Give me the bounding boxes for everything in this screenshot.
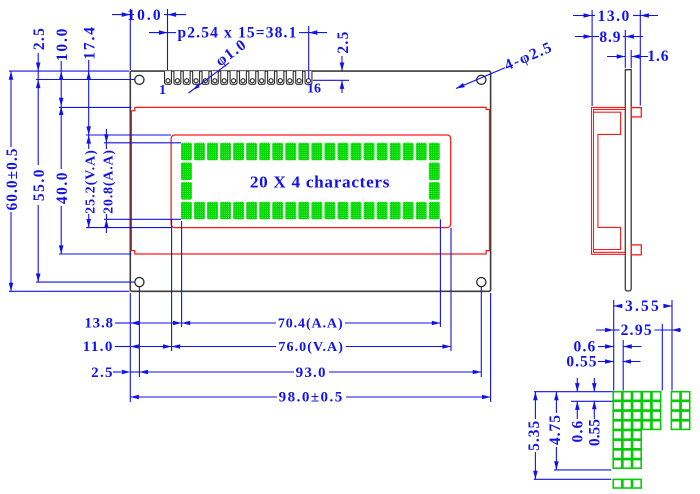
detail pixel r3c3 bbox=[642, 421, 651, 430]
extension line top hole center-left bbox=[36, 79, 135, 81]
dimension 76.0(V.A) bbox=[172, 344, 181, 349]
character cell r3c5 bbox=[246, 202, 257, 219]
character cell r0c17 bbox=[403, 143, 414, 160]
svg-text:76.0(V.A): 76.0(V.A) bbox=[278, 340, 344, 355]
svg-text:1: 1 bbox=[159, 83, 166, 98]
detail pixel r2c1 bbox=[623, 411, 632, 420]
dimension 2.5 top-left bbox=[37, 53, 39, 71]
detail pixel next-cell r2c6 bbox=[671, 411, 680, 420]
extension line AA right bottom bbox=[439, 219, 441, 327]
detail pixel r3c4 bbox=[652, 421, 661, 430]
dimension 2.95 bbox=[596, 329, 614, 331]
detail pixel r1c1 bbox=[623, 401, 632, 410]
character cell r0c2 bbox=[207, 143, 218, 160]
svg-text:2.5: 2.5 bbox=[31, 27, 48, 50]
svg-text:1.6: 1.6 bbox=[647, 48, 669, 65]
detail pixel r5c0 bbox=[613, 440, 622, 449]
character cell r3c8 bbox=[285, 202, 296, 219]
character cell r0c16 bbox=[390, 143, 401, 160]
dimension 55.0 bbox=[36, 80, 41, 89]
detail pixel r7c1 bbox=[623, 460, 632, 469]
extension line bottom hole center-left bbox=[36, 281, 135, 283]
svg-text:93.0: 93.0 bbox=[296, 365, 327, 381]
character cell r0c19 bbox=[429, 143, 440, 160]
character cell r3c11 bbox=[325, 202, 336, 219]
detail pixel r2c2 bbox=[633, 411, 642, 420]
character cell r0c1 bbox=[194, 143, 205, 160]
extension line detail grid top bbox=[534, 391, 613, 393]
extension line pcb left bottom bbox=[129, 293, 131, 402]
detail pixel r4c0 bbox=[613, 431, 622, 440]
svg-text:98.0±0.5: 98.0±0.5 bbox=[279, 390, 344, 406]
character cell r0c12 bbox=[338, 143, 349, 160]
character cell r0c15 bbox=[377, 143, 388, 160]
extension line AA left bottom bbox=[181, 221, 183, 327]
character cell r0c9 bbox=[298, 143, 309, 160]
detail pixel r1c3 bbox=[642, 401, 651, 410]
extension line detail next row top bbox=[534, 478, 612, 480]
dimension 93.0 bbox=[139, 370, 148, 375]
dimension 0.6 vertical bbox=[576, 378, 578, 392]
detail pixel r7c0 bbox=[613, 460, 622, 469]
dimension 20.8(A.A) bbox=[105, 129, 107, 143]
detail pixel r0c3 bbox=[642, 392, 651, 401]
detail pixel r2c3 bbox=[642, 411, 651, 420]
detail pixel r5c1 bbox=[623, 440, 632, 449]
svg-text:40.0: 40.0 bbox=[54, 171, 71, 204]
svg-text:0.55: 0.55 bbox=[587, 419, 604, 446]
svg-text:3.55: 3.55 bbox=[625, 298, 661, 315]
dimension 0.55 vertical bbox=[593, 378, 595, 392]
character cell r3c4 bbox=[233, 202, 244, 219]
detail pixel next-cell r3c7 bbox=[681, 421, 690, 430]
extension line pin16 hole right bbox=[313, 79, 349, 81]
side view bezel profile outer bbox=[592, 107, 626, 254]
svg-text:11.0: 11.0 bbox=[83, 339, 114, 355]
detail pixel r1c2 bbox=[633, 401, 642, 410]
detail pixel r1c0 bbox=[613, 401, 622, 410]
extension line side pcb right face bbox=[630, 50, 632, 68]
mounting hole bottom-right bbox=[477, 278, 486, 287]
extension line pcb left top bbox=[129, 9, 131, 70]
svg-text:5.35: 5.35 bbox=[526, 420, 543, 451]
detail pixel next-cell r1c6 bbox=[671, 401, 680, 410]
detail pixel next-cell r1c7 bbox=[681, 401, 690, 410]
svg-text:10.0: 10.0 bbox=[127, 7, 163, 24]
detail pixel next-cell r3c6 bbox=[671, 421, 680, 430]
extension line VA bottom-left bbox=[86, 227, 171, 229]
extension line VA right bottom bbox=[450, 228, 452, 351]
pin 10 bbox=[249, 71, 256, 84]
pin 7 bbox=[221, 71, 228, 84]
extension line pcb bottom-left bbox=[9, 290, 129, 292]
dimension 40.0 bbox=[59, 106, 64, 115]
pin 6 bbox=[211, 71, 218, 84]
character cell r1c19 bbox=[429, 162, 440, 179]
pin 14 bbox=[286, 71, 293, 84]
svg-text:20 X 4 characters: 20 X 4 characters bbox=[250, 172, 390, 191]
dimension 8.9 bbox=[575, 36, 592, 38]
extension line AA top-left bbox=[104, 142, 181, 144]
detail pixel r4c2 bbox=[633, 431, 642, 440]
detail pixel r0c4 bbox=[652, 392, 661, 401]
dimension 17.4 bbox=[88, 60, 90, 71]
dimension 1.6 bbox=[607, 56, 625, 58]
character cell r1c0 bbox=[181, 162, 192, 179]
mounting hole bottom-left bbox=[135, 278, 144, 287]
extension line VA top-left bbox=[86, 134, 171, 136]
svg-text:55.0: 55.0 bbox=[31, 168, 48, 201]
character cell r0c14 bbox=[364, 143, 375, 160]
pin 11 bbox=[258, 71, 265, 84]
detail pixel r6c0 bbox=[613, 450, 622, 459]
detail pixel next-row c0 bbox=[613, 479, 622, 488]
PCB board outline bbox=[130, 71, 490, 291]
dimension 2.5 top-right bbox=[341, 56, 343, 71]
side view bezel profile inner bbox=[594, 109, 626, 252]
dimension 10.0 top bbox=[112, 14, 130, 16]
pin 3 bbox=[183, 71, 190, 84]
character cell r3c2 bbox=[207, 202, 218, 219]
pin 13 bbox=[277, 71, 284, 84]
dimension 3.55 bbox=[614, 304, 623, 309]
leader 4-phi 2.5 bbox=[456, 68, 505, 89]
svg-text:20.8(A.A): 20.8(A.A) bbox=[101, 149, 116, 214]
svg-text:10.0: 10.0 bbox=[54, 27, 71, 61]
character cell r0c13 bbox=[351, 143, 362, 160]
detail pixel r1c4 bbox=[652, 401, 661, 410]
detail pixel r7c2 bbox=[633, 460, 642, 469]
character cell r3c9 bbox=[298, 202, 309, 219]
character cell r0c10 bbox=[311, 143, 322, 160]
character cell r3c18 bbox=[416, 202, 427, 219]
pin 1 bbox=[165, 71, 172, 84]
svg-text:16: 16 bbox=[307, 82, 321, 97]
mounting hole top-right bbox=[477, 75, 486, 84]
extension line detail pixel col right bbox=[622, 340, 624, 391]
detail pixel next-cell r0c7 bbox=[681, 392, 690, 401]
detail pixel r0c2 bbox=[633, 392, 642, 401]
detail pixel next-row c1 bbox=[623, 479, 632, 488]
dimension p2.54 x 15=38.1 bbox=[149, 32, 168, 34]
detail pixel r2c0 bbox=[613, 411, 622, 420]
pin 9 bbox=[239, 71, 246, 84]
leader phi 1.0 bbox=[189, 63, 230, 93]
character cell r3c19 bbox=[429, 202, 440, 219]
detail pixel next-cell r0c6 bbox=[671, 392, 680, 401]
extension line side tab right bbox=[639, 10, 641, 106]
dimension 5.35 bbox=[534, 392, 536, 419]
extension line pcb top-left bbox=[9, 70, 129, 72]
svg-text:70.4(A.A): 70.4(A.A) bbox=[278, 317, 344, 332]
side view bottom mounting tab bbox=[631, 245, 641, 255]
character cell r3c15 bbox=[377, 202, 388, 219]
extension line detail char bottom bbox=[554, 469, 611, 471]
dimension 60.0±0.5 bbox=[10, 71, 12, 147]
character cell r3c17 bbox=[403, 202, 414, 219]
pin 16 bbox=[305, 71, 312, 84]
character cell r0c6 bbox=[259, 143, 270, 160]
svg-text:17.4: 17.4 bbox=[82, 25, 99, 59]
svg-text:4.75: 4.75 bbox=[547, 414, 564, 445]
character cell r0c4 bbox=[233, 143, 244, 160]
detail pixel r2c4 bbox=[652, 411, 661, 420]
character cell r3c1 bbox=[194, 202, 205, 219]
character cell r2c0 bbox=[181, 182, 192, 199]
dimension 25.2(V.A) bbox=[86, 135, 91, 144]
svg-text:2.5: 2.5 bbox=[335, 30, 352, 53]
extension line bezel top-left bbox=[59, 106, 131, 108]
svg-text:13.8: 13.8 bbox=[84, 316, 113, 332]
extension line bezel bottom-left bbox=[59, 253, 131, 255]
pin 8 bbox=[230, 71, 237, 84]
extension line pin16 center bbox=[308, 26, 310, 79]
svg-text:0.6: 0.6 bbox=[570, 420, 587, 443]
LCD bezel outline bbox=[131, 107, 489, 254]
dimension 70.4(A.A) bbox=[182, 321, 191, 326]
character cell r3c16 bbox=[390, 202, 401, 219]
detail pixel next-row c2 bbox=[633, 479, 642, 488]
character cell r0c0 bbox=[181, 143, 192, 160]
dimension 10.0 left bbox=[60, 61, 62, 71]
detail pixel r3c1 bbox=[623, 421, 632, 430]
mounting hole top-left bbox=[135, 75, 144, 84]
character cell r0c18 bbox=[416, 143, 427, 160]
character cell r3c10 bbox=[311, 202, 322, 219]
detail pixel r6c2 bbox=[633, 450, 642, 459]
character cell r3c7 bbox=[272, 202, 283, 219]
dimension 13.0 bbox=[573, 15, 592, 17]
dimension 98.0±0.5 bbox=[130, 395, 139, 400]
detail pixel r3c2 bbox=[633, 421, 642, 430]
extension line hole right bottom bbox=[480, 287, 482, 377]
pin 5 bbox=[202, 71, 209, 84]
extension line pin1 center bbox=[167, 9, 169, 70]
svg-text:25.2(V.A): 25.2(V.A) bbox=[84, 149, 99, 214]
extension line detail pixel row bottom bbox=[571, 400, 613, 402]
character cell r3c3 bbox=[220, 202, 231, 219]
svg-text:2.95: 2.95 bbox=[621, 322, 653, 339]
svg-text:13.0: 13.0 bbox=[598, 8, 631, 25]
extension line pcb right bottom bbox=[490, 293, 492, 402]
character cell r0c5 bbox=[246, 143, 257, 160]
character cell r3c6 bbox=[259, 202, 270, 219]
svg-text:8.9: 8.9 bbox=[599, 29, 621, 46]
detail pixel r6c1 bbox=[623, 450, 632, 459]
extension line hole left bottom bbox=[138, 287, 140, 377]
extension line VA left bottom bbox=[171, 220, 173, 352]
detail pixel next-cell r2c7 bbox=[681, 411, 690, 420]
character cell r3c13 bbox=[351, 202, 362, 219]
side view LCD glass profile bbox=[594, 112, 621, 249]
dimension 4.75 bbox=[555, 392, 557, 413]
side view PCB bar bbox=[625, 70, 631, 291]
detail pixel r4c1 bbox=[623, 431, 632, 440]
character cell r0c11 bbox=[325, 143, 336, 160]
svg-text:0.55: 0.55 bbox=[566, 354, 597, 371]
pin 2 bbox=[174, 71, 181, 84]
detail pixel r0c1 bbox=[623, 392, 632, 401]
character cell r0c7 bbox=[272, 143, 283, 160]
extension line detail cell right bbox=[661, 324, 663, 391]
viewing area V.A. outline bbox=[171, 135, 451, 228]
character cell r3c0 bbox=[181, 202, 192, 219]
extension line detail cell left bbox=[613, 300, 615, 391]
svg-text:60.0±0.5: 60.0±0.5 bbox=[4, 147, 21, 210]
character cell r0c3 bbox=[220, 143, 231, 160]
extension line detail next cell left bbox=[671, 300, 673, 391]
extension line side bezel left bbox=[591, 10, 593, 106]
character cell r0c8 bbox=[285, 143, 296, 160]
character cell r2c19 bbox=[429, 182, 440, 199]
extension line AA bottom-left bbox=[104, 218, 181, 220]
detail pixel r3c0 bbox=[613, 421, 622, 430]
extension line side pcb left face bbox=[624, 30, 626, 68]
character cell r3c14 bbox=[364, 202, 375, 219]
side view top mounting tab bbox=[631, 108, 641, 117]
pin 15 bbox=[296, 71, 303, 84]
svg-text:2.5: 2.5 bbox=[91, 365, 114, 381]
pin 4 bbox=[193, 71, 200, 84]
character cell r3c12 bbox=[338, 202, 349, 219]
detail pixel r5c2 bbox=[633, 440, 642, 449]
pin 12 bbox=[268, 71, 275, 84]
detail pixel r0c0 bbox=[613, 392, 622, 401]
